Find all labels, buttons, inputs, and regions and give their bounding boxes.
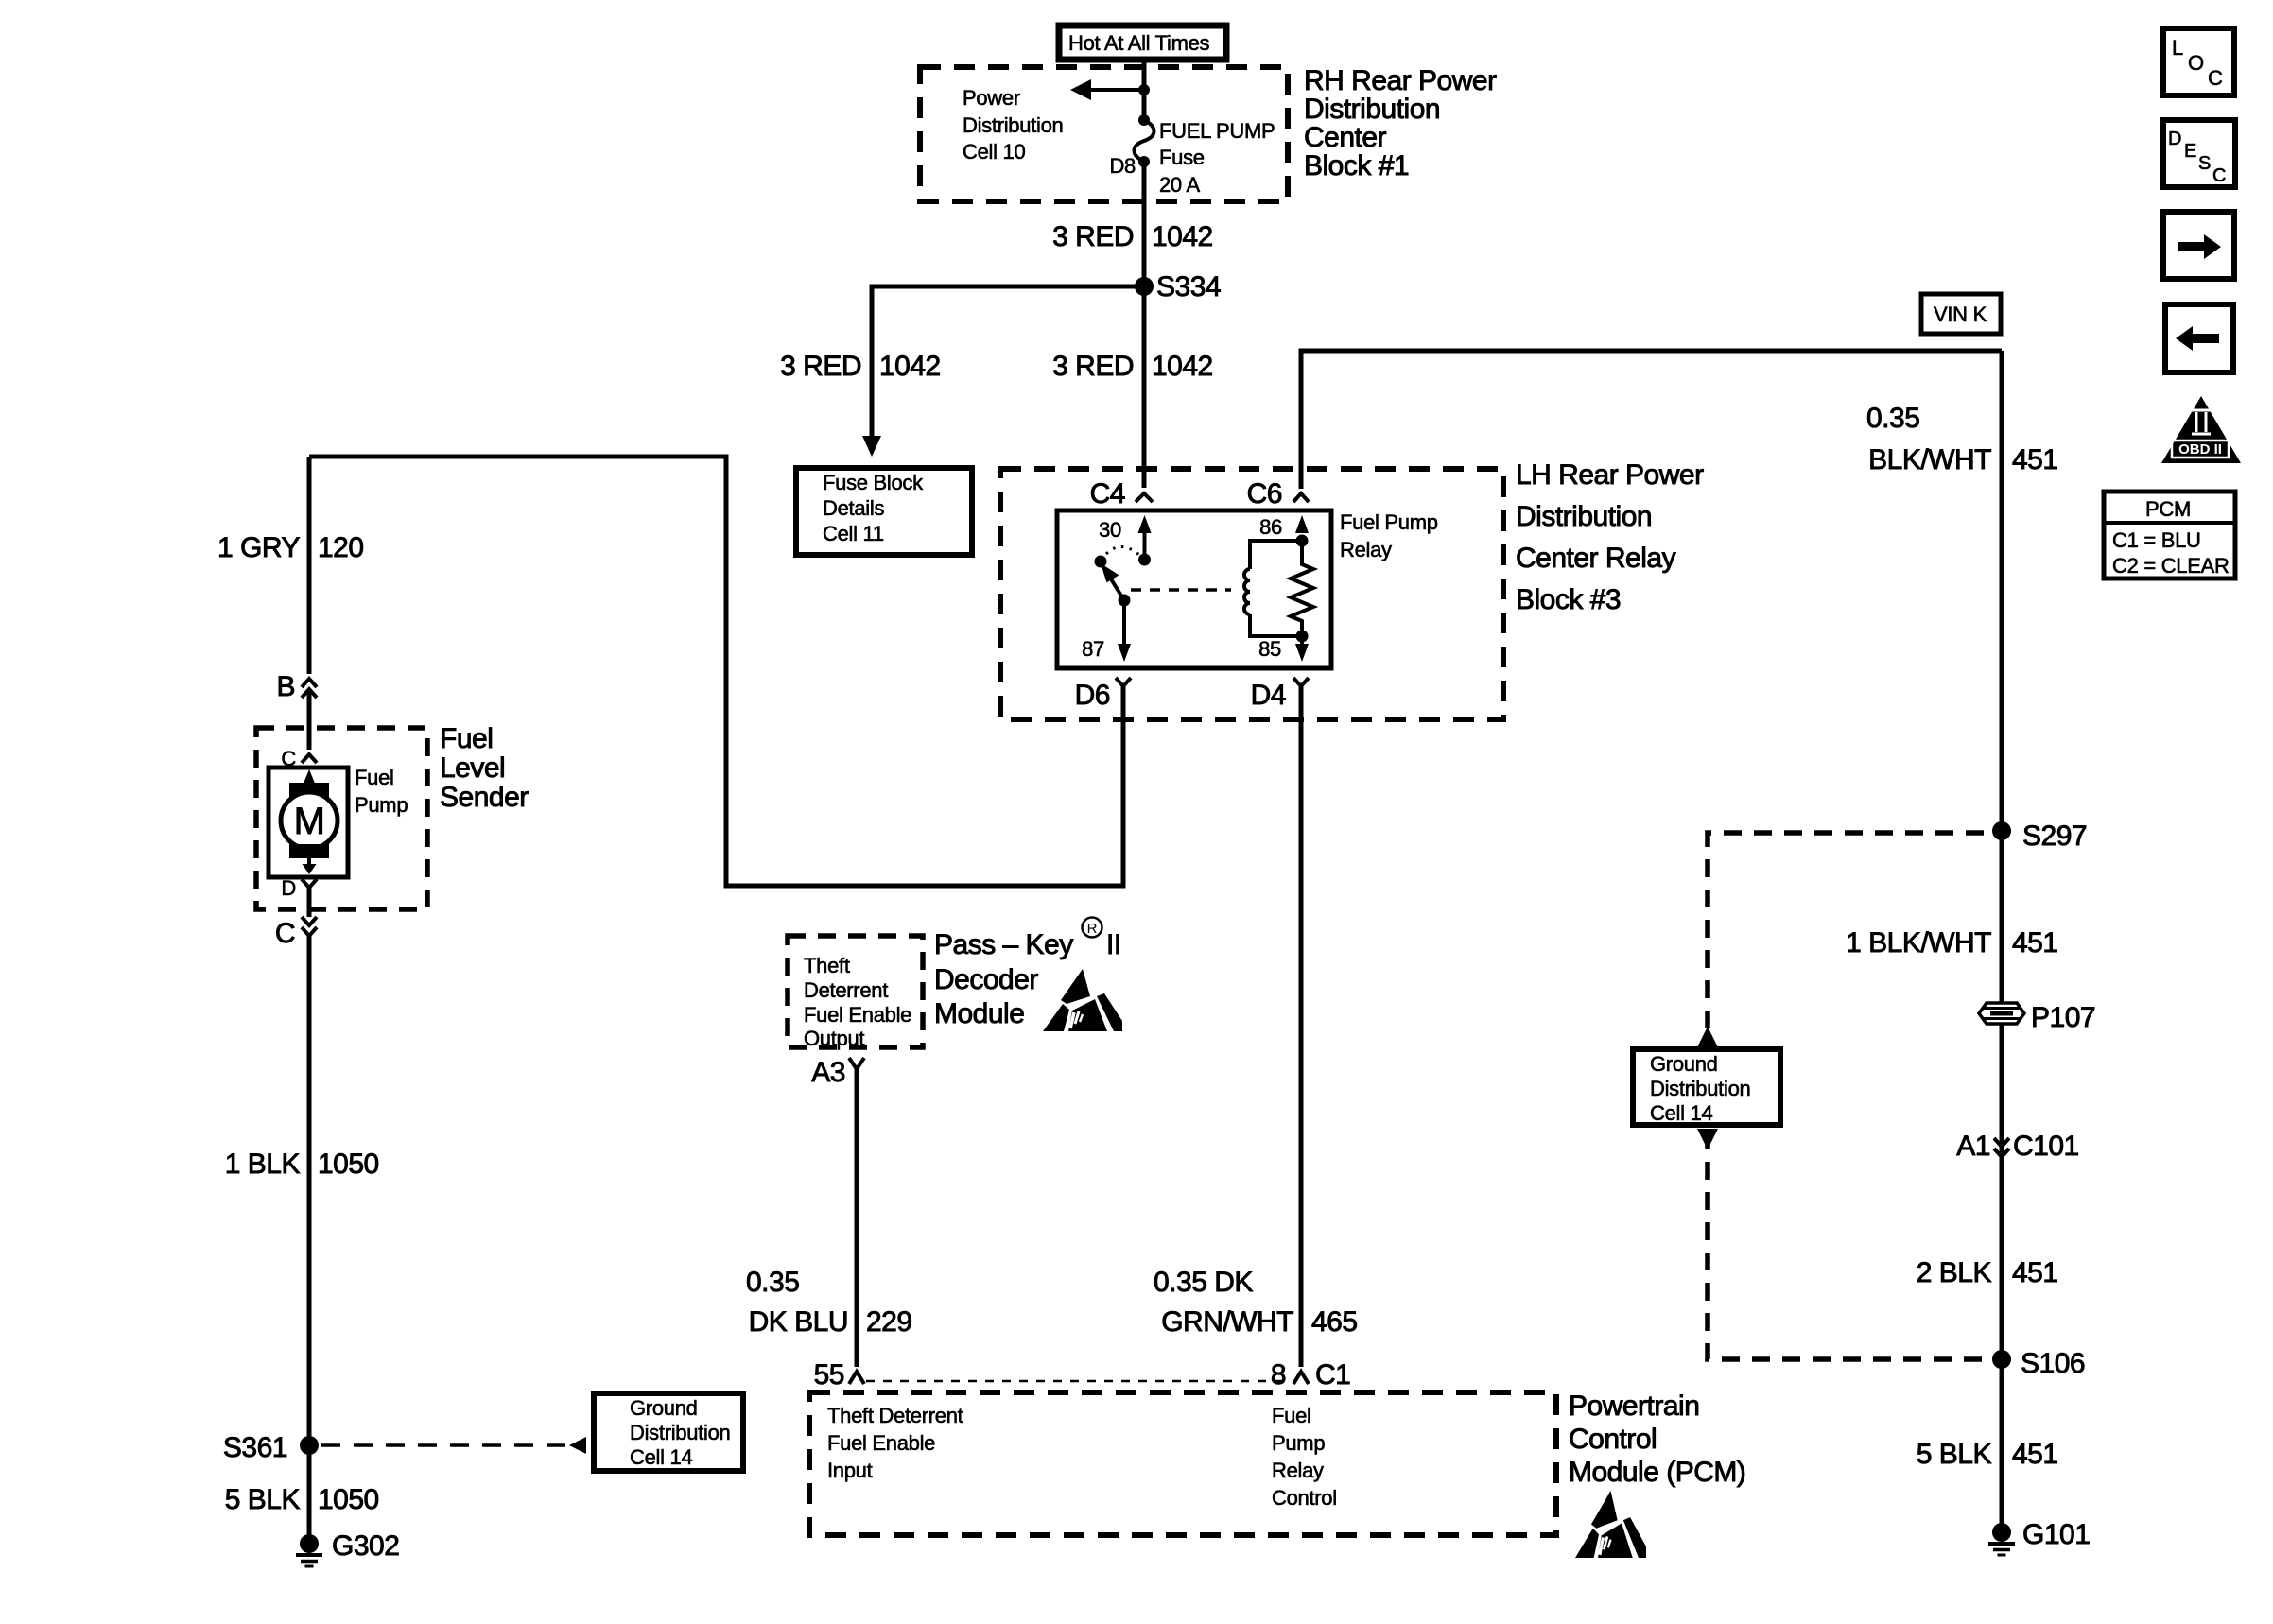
node S334: [1135, 271, 1221, 302]
fuel pump motor M: [269, 768, 348, 877]
svg-text:OBD II: OBD II: [2178, 441, 2222, 458]
svg-text:85: 85: [1258, 637, 1281, 661]
wire: branch from S334 to Fuse Block Details: [862, 286, 1144, 457]
svg-text:Output: Output: [804, 1027, 864, 1050]
svg-text:VIN K: VIN K: [1934, 302, 1987, 326]
svg-text:Powertrain: Powertrain: [1569, 1391, 1699, 1422]
svg-text:M: M: [294, 801, 325, 842]
svg-text:Fuel: Fuel: [440, 723, 493, 754]
svg-text:Distribution: Distribution: [630, 1421, 730, 1444]
label: Fuel Pump Relay Control: [1272, 1404, 1337, 1510]
svg-text:D4: D4: [1251, 680, 1286, 711]
pin C6 chevron: [1293, 493, 1309, 502]
svg-text:3 RED: 3 RED: [1052, 221, 1134, 252]
wire: relay 85 output via D4 down to PCM pin 8: [1299, 686, 1304, 1367]
label: Powertrain Control Module (PCM): [1569, 1391, 1745, 1488]
dashed box: Theft Deterrent Fuel Enable Output: [788, 936, 923, 1047]
ESD symbol (Pass-Key): [1043, 969, 1122, 1031]
label: Fuel Pump: [355, 766, 408, 817]
label: Fuel Pump Relay: [1340, 510, 1438, 561]
svg-text:DK BLU: DK BLU: [749, 1306, 848, 1338]
svg-text:D6: D6: [1075, 680, 1110, 711]
svg-text:20 A: 20 A: [1159, 173, 1200, 197]
svg-text:86: 86: [1259, 515, 1282, 539]
svg-text:5 BLK: 5 BLK: [225, 1484, 301, 1515]
relay pin 86 wire with up arrow: [1295, 515, 1309, 533]
svg-text:Relay: Relay: [1272, 1459, 1324, 1482]
label: Pass-Key II Decoder Module: [934, 918, 1121, 1030]
svg-text:Cell 11: Cell 11: [823, 522, 884, 545]
svg-text:2 BLK: 2 BLK: [1917, 1257, 1992, 1288]
wire: 0.35 BLK/WHT 451 ground run: [2000, 351, 2004, 1532]
wire label: 1 BLK 1050: [225, 1149, 379, 1180]
label: Power Distribution Cell 10: [963, 86, 1063, 164]
svg-text:C: C: [275, 918, 295, 949]
svg-text:1042: 1042: [1152, 221, 1213, 252]
legend box: PCM connectors: [2104, 492, 2235, 579]
svg-text:1 BLK/WHT: 1 BLK/WHT: [1846, 927, 1991, 959]
svg-text:S: S: [2198, 153, 2211, 174]
svg-text:3 RED: 3 RED: [1052, 351, 1134, 382]
connector C101 pin A1 (double chevron): [1956, 1131, 2078, 1162]
svg-text:P107: P107: [2031, 1002, 2095, 1033]
svg-text:Hot At All Times: Hot At All Times: [1068, 31, 1210, 55]
wire label: 0.35 DK GRN/WHT 465: [1154, 1267, 1358, 1338]
svg-text:Fuel: Fuel: [355, 766, 394, 789]
svg-text:451: 451: [2012, 444, 2058, 475]
relay U: Fuel Pump Relay box: [1057, 510, 1331, 668]
pin 55 chevron: [814, 1359, 864, 1391]
svg-text:A1: A1: [1956, 1131, 1990, 1162]
dashed reference wire from S361 to Ground Distribution: [321, 1437, 586, 1454]
relay pin 30 wire with up arrow: [1138, 515, 1152, 566]
svg-text:Input: Input: [827, 1459, 873, 1482]
svg-text:0.35: 0.35: [746, 1267, 799, 1298]
label: RH Rear Power Distribution Center Block #1: [1304, 65, 1497, 181]
svg-text:C2 = CLEAR: C2 = CLEAR: [2112, 554, 2230, 578]
svg-text:C1 = BLU: C1 = BLU: [2112, 528, 2201, 552]
svg-text:RH Rear Power: RH Rear Power: [1304, 65, 1497, 96]
svg-text:Ground: Ground: [1650, 1052, 1718, 1076]
svg-text:Distribution: Distribution: [1650, 1077, 1750, 1100]
svg-text:5 BLK: 5 BLK: [1917, 1439, 1992, 1470]
svg-text:II: II: [1106, 929, 1121, 960]
svg-text:BLK/WHT: BLK/WHT: [1868, 444, 1991, 475]
pin D chevron: [281, 876, 317, 900]
svg-text:Block #3: Block #3: [1516, 584, 1621, 615]
icon: OBD II triangle: [2161, 396, 2241, 463]
relay switch: common contact and blade: [1095, 546, 1141, 606]
wire label: 1 BLK/WHT 451: [1846, 927, 2057, 959]
svg-text:1050: 1050: [318, 1149, 379, 1180]
svg-text:Fuel Enable: Fuel Enable: [804, 1003, 911, 1027]
node label: Hot At All Times: [1059, 26, 1226, 60]
wire label: 5 BLK 1050: [225, 1484, 379, 1515]
svg-text:0.35: 0.35: [1866, 403, 1919, 434]
ground G101: [1988, 1519, 2090, 1555]
grommet P107: [1979, 1002, 2095, 1033]
svg-text:Distribution: Distribution: [1304, 94, 1440, 125]
node S106: [1992, 1348, 2085, 1379]
relay pin 87 wire with down arrow: [1118, 600, 1131, 662]
svg-text:0.35 DK: 0.35 DK: [1154, 1267, 1253, 1298]
svg-text:Control: Control: [1569, 1424, 1657, 1455]
svg-text:Power: Power: [963, 86, 1020, 110]
node S361: [223, 1432, 319, 1463]
svg-text:451: 451: [2012, 1439, 2058, 1470]
svg-text:C: C: [2212, 165, 2226, 186]
svg-text:Distribution: Distribution: [1516, 501, 1652, 532]
dashed box: Fuel Level Sender: [256, 728, 427, 909]
svg-text:GRN/WHT: GRN/WHT: [1161, 1306, 1293, 1338]
svg-text:1042: 1042: [879, 351, 941, 382]
dashed box: ground distribution reference: [1708, 833, 1984, 1359]
svg-text:R: R: [1087, 921, 1098, 937]
svg-text:L: L: [2172, 36, 2183, 60]
svg-text:B: B: [276, 671, 295, 702]
svg-text:Center Relay: Center Relay: [1516, 543, 1676, 574]
svg-text:Sender: Sender: [440, 782, 529, 813]
svg-text:451: 451: [2012, 927, 2058, 959]
svg-text:Theft: Theft: [804, 954, 850, 977]
pin 8 / C1 chevron: [1271, 1359, 1351, 1391]
svg-text:Module: Module: [934, 998, 1024, 1029]
reference arrow down: [1697, 1129, 1718, 1149]
svg-text:Cell 14: Cell 14: [630, 1445, 692, 1469]
node S297: [1992, 821, 2087, 852]
pin D6 chevron: [1116, 678, 1131, 686]
svg-text:Control: Control: [1272, 1486, 1337, 1510]
svg-text:C1: C1: [1315, 1359, 1350, 1391]
fuse: FUEL PUMP Fuse 20 A (D8): [1135, 114, 1154, 167]
connector C (double chevron): [275, 917, 317, 949]
wire label: 3 RED 1042 (upper): [1052, 221, 1213, 252]
svg-text:Ground: Ground: [630, 1396, 698, 1420]
connector B (double chevron): [276, 671, 317, 702]
svg-text:C101: C101: [2013, 1131, 2079, 1162]
svg-text:1 BLK: 1 BLK: [225, 1149, 301, 1180]
wire: connector B to fuel pump C: [307, 689, 312, 750]
dashed box: RH Rear Power Distribution Center Block #1: [920, 67, 1288, 201]
svg-text:O: O: [2188, 51, 2204, 75]
svg-text:451: 451: [2012, 1257, 2058, 1288]
svg-text:C4: C4: [1090, 478, 1125, 510]
wire: 1 BLK 1050 to ground G302: [307, 936, 312, 1544]
wire: arrow to Power Distribution Cell 10: [1070, 79, 1150, 100]
svg-text:C6: C6: [1247, 478, 1282, 510]
relay coil: [1244, 541, 1302, 636]
ground G302: [296, 1530, 399, 1566]
svg-text:Decoder: Decoder: [934, 964, 1038, 995]
reference arrow up: [1697, 1027, 1718, 1047]
wire label: 3 RED 1042 (branch): [780, 351, 941, 382]
label: Theft Deterrent Fuel Enable Input: [827, 1404, 963, 1482]
svg-text:G302: G302: [332, 1530, 399, 1562]
wire label: 3 RED 1042 (below S334): [1052, 351, 1213, 382]
svg-text:D: D: [281, 876, 296, 900]
label: LH Rear Power Distribution Center Relay Block #3: [1516, 459, 1704, 615]
svg-text:Fuse Block: Fuse Block: [823, 471, 924, 494]
svg-text:465: 465: [1311, 1306, 1358, 1338]
svg-text:Pass – Key: Pass – Key: [934, 929, 1073, 960]
icon: arrow left: [2165, 304, 2233, 372]
wire label: 1 GRY 120: [217, 532, 364, 563]
svg-text:S334: S334: [1156, 271, 1221, 302]
svg-text:Cell 14: Cell 14: [1650, 1101, 1712, 1125]
svg-text:S106: S106: [2021, 1348, 2085, 1379]
pin C4 chevron: [1136, 493, 1153, 502]
pin A3 chevron: [811, 1057, 864, 1088]
svg-text:1050: 1050: [318, 1484, 379, 1515]
wire label: 0.35 DK BLU 229: [746, 1267, 912, 1338]
wire: battery feed from Hot At All Times to fuse: [1142, 60, 1147, 117]
svg-text:Pump: Pump: [355, 793, 408, 817]
svg-text:120: 120: [318, 532, 364, 563]
svg-text:Theft Deterrent: Theft Deterrent: [827, 1404, 963, 1427]
svg-text:D8: D8: [1109, 154, 1136, 178]
label: Fuel Level Sender: [440, 723, 529, 813]
label: FUEL PUMP Fuse 20 A: [1159, 119, 1275, 197]
wire: pump D to connector C: [307, 888, 312, 917]
svg-text:Deterrent: Deterrent: [804, 978, 888, 1002]
svg-text:Relay: Relay: [1340, 538, 1392, 561]
wire: 0.35 DK BLU 229 from A3 to PCM pin 55: [855, 1069, 859, 1367]
svg-text:30: 30: [1099, 518, 1121, 542]
svg-text:LH Rear Power: LH Rear Power: [1516, 459, 1704, 491]
svg-text:Fuel Enable: Fuel Enable: [827, 1431, 935, 1455]
svg-text:Distribution: Distribution: [963, 113, 1063, 137]
svg-text:Fuel Pump: Fuel Pump: [1340, 510, 1438, 534]
svg-text:Level: Level: [440, 752, 505, 784]
icon: arrow right: [2163, 212, 2234, 279]
dashed connector face line between pin 55 and C1: [866, 1380, 1292, 1383]
wire label: 5 BLK 451: [1917, 1439, 2058, 1470]
icon: DESC: [2163, 120, 2235, 187]
svg-text:PCM: PCM: [2145, 497, 2191, 521]
wire label: 2 BLK 451: [1917, 1257, 2058, 1288]
component box: Ground Distribution Cell 14 (left): [594, 1393, 743, 1471]
component box: Fuse Block Details Cell 11: [796, 468, 972, 555]
svg-text:Center: Center: [1304, 122, 1387, 153]
component box: Ground Distribution Cell 14 (right): [1633, 1049, 1780, 1125]
svg-text:Cell 10: Cell 10: [963, 140, 1025, 164]
svg-text:E: E: [2184, 141, 2196, 162]
svg-text:Details: Details: [823, 496, 884, 520]
svg-text:C: C: [2208, 66, 2223, 90]
pin D4 chevron: [1293, 678, 1309, 686]
wire: VIN K feed to relay 86 via C6: [1301, 351, 2002, 489]
svg-text:Module (PCM): Module (PCM): [1569, 1457, 1745, 1488]
svg-text:8: 8: [1271, 1359, 1286, 1391]
wire: 1 GRY 120 down to connector B: [307, 457, 312, 674]
label: Theft Deterrent Fuel Enable Output: [804, 954, 911, 1050]
svg-text:Pump: Pump: [1272, 1431, 1325, 1455]
dashed box: Powertrain Control Module (PCM): [809, 1392, 1556, 1535]
wire: relay 87 output via D6 down and left to fuel pump loop: [309, 457, 1123, 886]
svg-text:1 GRY: 1 GRY: [217, 532, 300, 563]
svg-text:55: 55: [814, 1359, 844, 1391]
svg-text:G101: G101: [2022, 1519, 2090, 1550]
relay mechanical link (dashed): [1131, 588, 1231, 592]
relay coil suppression resistor: [1291, 535, 1313, 643]
svg-text:FUEL PUMP: FUEL PUMP: [1159, 119, 1275, 143]
wire: fuse output 3 RED 1042 down to relay C4: [1142, 162, 1147, 488]
svg-text:Block #1: Block #1: [1304, 150, 1409, 181]
svg-text:229: 229: [866, 1306, 912, 1338]
icon: LOC: [2163, 28, 2234, 95]
svg-text:S361: S361: [223, 1432, 287, 1463]
svg-text:3 RED: 3 RED: [780, 351, 861, 382]
svg-text:D: D: [2168, 129, 2181, 149]
relay pin 85 wire with down arrow: [1295, 636, 1309, 662]
pin C chevron: [281, 747, 317, 770]
svg-text:A3: A3: [811, 1057, 845, 1088]
dashed box: LH Rear Power Distribution Center Relay Block #3: [1000, 469, 1503, 719]
node label: VIN K: [1921, 294, 2001, 334]
ESD symbol (PCM): [1575, 1491, 1646, 1558]
svg-text:1042: 1042: [1152, 351, 1213, 382]
svg-text:Fuel: Fuel: [1272, 1404, 1311, 1427]
svg-text:S297: S297: [2022, 821, 2087, 852]
svg-text:87: 87: [1082, 637, 1104, 661]
svg-text:Fuse: Fuse: [1159, 146, 1205, 169]
wire label: 0.35 BLK/WHT 451: [1866, 403, 2058, 475]
